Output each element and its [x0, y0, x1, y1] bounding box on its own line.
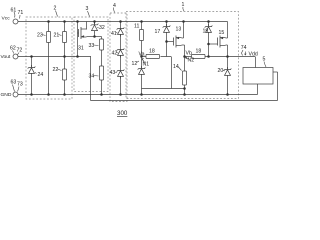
svg-text:74: 74: [241, 45, 247, 51]
svg-text:31: 31: [78, 46, 84, 52]
svg-text:Vb: Vb: [186, 50, 192, 56]
svg-text:15: 15: [219, 30, 225, 36]
svg-text:34: 34: [89, 74, 95, 80]
svg-text:Vcc: Vcc: [2, 16, 11, 22]
svg-text:Vout: Vout: [1, 54, 11, 60]
svg-text:2: 2: [54, 6, 57, 12]
svg-text:32: 32: [99, 25, 105, 31]
svg-text:41: 41: [111, 31, 117, 37]
svg-text:21: 21: [54, 33, 60, 39]
svg-text:12: 12: [132, 61, 138, 67]
svg-text:24: 24: [38, 72, 44, 78]
svg-text:20: 20: [218, 68, 224, 74]
svg-text:N2: N2: [188, 58, 195, 64]
svg-text:43: 43: [110, 70, 116, 76]
svg-text:18: 18: [149, 49, 155, 55]
svg-text:18: 18: [196, 49, 202, 55]
svg-text:Vdd: Vdd: [249, 52, 258, 58]
svg-text:300: 300: [117, 110, 128, 117]
svg-text:33: 33: [89, 43, 95, 49]
svg-text:62: 62: [10, 46, 16, 52]
svg-text:13: 13: [176, 27, 182, 33]
svg-text:22: 22: [53, 67, 59, 73]
svg-text:N1: N1: [143, 62, 150, 68]
svg-text:23: 23: [37, 33, 43, 39]
svg-text:72: 72: [17, 48, 23, 54]
svg-text:73: 73: [17, 82, 23, 88]
svg-text:71: 71: [18, 10, 24, 16]
svg-text:19: 19: [203, 29, 209, 35]
svg-text:42: 42: [112, 51, 118, 57]
svg-text:63: 63: [11, 80, 17, 86]
svg-text:Va: Va: [139, 52, 145, 58]
svg-text:3: 3: [86, 6, 89, 12]
svg-text:14: 14: [173, 64, 179, 70]
svg-text:11: 11: [134, 24, 139, 30]
svg-text:61: 61: [11, 8, 17, 14]
svg-text:17: 17: [155, 29, 161, 35]
svg-text:GND: GND: [1, 92, 12, 98]
